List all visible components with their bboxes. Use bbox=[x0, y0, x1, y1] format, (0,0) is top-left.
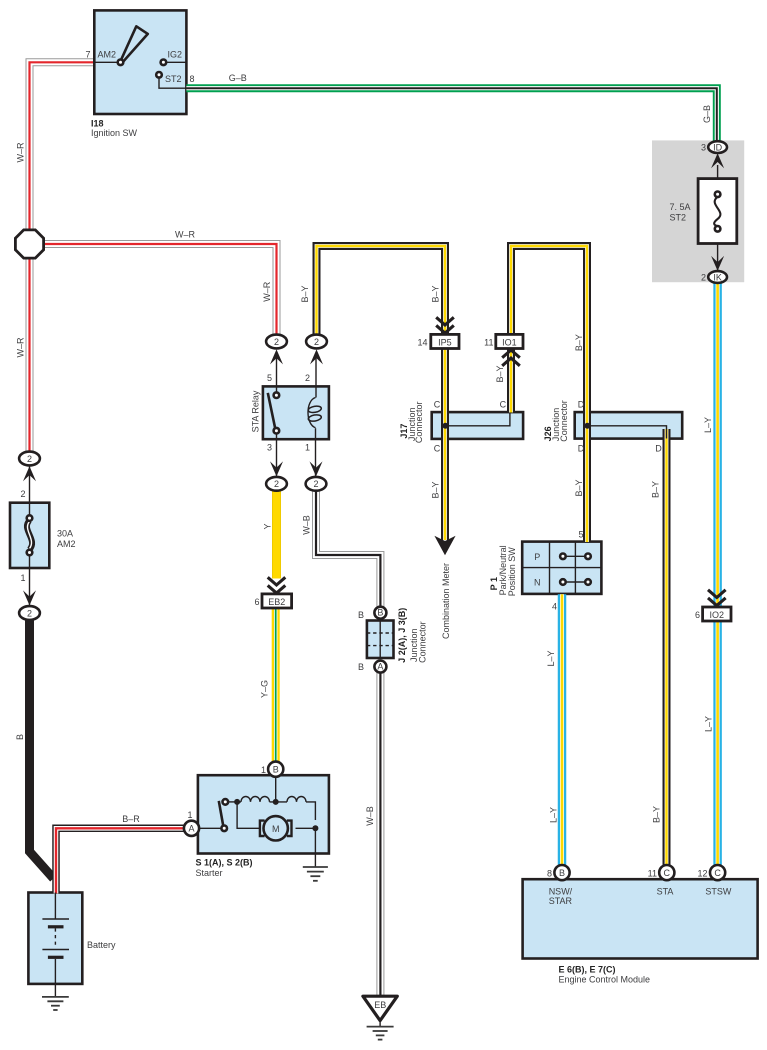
svg-text:B–Y: B–Y bbox=[574, 479, 584, 496]
svg-text:C: C bbox=[664, 868, 671, 878]
svg-text:2: 2 bbox=[274, 337, 279, 347]
svg-text:G–B: G–B bbox=[702, 105, 712, 123]
svg-text:Position SW: Position SW bbox=[507, 547, 517, 597]
svg-text:STA Relay: STA Relay bbox=[250, 390, 260, 432]
svg-text:IG2: IG2 bbox=[168, 50, 183, 60]
svg-text:AM2: AM2 bbox=[98, 50, 117, 60]
svg-text:C: C bbox=[434, 444, 441, 454]
svg-text:L–Y: L–Y bbox=[549, 807, 559, 823]
svg-text:D: D bbox=[655, 444, 662, 454]
svg-text:8: 8 bbox=[190, 74, 195, 84]
svg-text:Engine Control Module: Engine Control Module bbox=[559, 975, 651, 985]
svg-text:4: 4 bbox=[552, 602, 557, 612]
svg-text:2: 2 bbox=[27, 608, 32, 618]
svg-text:1: 1 bbox=[187, 810, 192, 820]
svg-text:ST2: ST2 bbox=[670, 213, 687, 223]
svg-text:AM2: AM2 bbox=[57, 539, 76, 549]
svg-text:D: D bbox=[578, 400, 585, 410]
svg-text:W–R: W–R bbox=[16, 142, 26, 163]
svg-text:B–Y: B–Y bbox=[430, 285, 440, 302]
svg-text:6: 6 bbox=[695, 610, 700, 620]
svg-text:STAR: STAR bbox=[549, 896, 573, 906]
svg-text:3: 3 bbox=[701, 143, 706, 153]
svg-text:EB: EB bbox=[374, 1000, 386, 1010]
svg-text:2: 2 bbox=[701, 273, 706, 283]
svg-text:D: D bbox=[578, 444, 585, 454]
svg-text:2: 2 bbox=[313, 479, 318, 489]
svg-text:2: 2 bbox=[305, 373, 310, 383]
svg-text:Connector: Connector bbox=[414, 402, 424, 444]
svg-text:11: 11 bbox=[648, 869, 657, 879]
svg-text:B–Y: B–Y bbox=[495, 365, 505, 382]
svg-text:5: 5 bbox=[578, 530, 583, 540]
svg-text:30A: 30A bbox=[57, 529, 73, 539]
svg-text:2: 2 bbox=[20, 489, 25, 499]
svg-text:B–Y: B–Y bbox=[574, 334, 584, 351]
svg-text:1: 1 bbox=[20, 573, 25, 583]
svg-text:B–Y: B–Y bbox=[300, 285, 310, 302]
svg-text:B: B bbox=[377, 608, 383, 618]
svg-text:STSW: STSW bbox=[705, 887, 732, 897]
svg-text:7: 7 bbox=[85, 50, 90, 60]
svg-text:IO2: IO2 bbox=[710, 610, 725, 620]
svg-text:ID: ID bbox=[713, 143, 723, 153]
svg-text:6: 6 bbox=[254, 597, 259, 607]
svg-text:12: 12 bbox=[697, 869, 707, 879]
svg-text:Starter: Starter bbox=[196, 868, 223, 878]
svg-text:W–R: W–R bbox=[175, 230, 196, 240]
svg-text:14: 14 bbox=[417, 338, 427, 348]
svg-text:B: B bbox=[559, 868, 565, 878]
svg-text:2: 2 bbox=[27, 454, 32, 464]
svg-text:Y–G: Y–G bbox=[260, 680, 270, 698]
svg-text:B: B bbox=[358, 662, 364, 672]
svg-text:W–B: W–B bbox=[302, 515, 312, 535]
svg-text:IO1: IO1 bbox=[502, 338, 517, 348]
svg-text:G–B: G–B bbox=[229, 73, 247, 83]
svg-text:L–Y: L–Y bbox=[703, 417, 713, 433]
svg-text:W–R: W–R bbox=[16, 337, 26, 358]
svg-text:L–Y: L–Y bbox=[703, 716, 713, 732]
svg-text:7. 5A: 7. 5A bbox=[670, 202, 691, 212]
svg-text:Ignition SW: Ignition SW bbox=[91, 128, 138, 138]
svg-text:L–Y: L–Y bbox=[546, 650, 556, 666]
svg-text:C: C bbox=[434, 400, 441, 410]
svg-text:ST2: ST2 bbox=[165, 74, 182, 84]
svg-text:IK: IK bbox=[713, 272, 722, 282]
svg-text:Combination Meter: Combination Meter bbox=[441, 563, 451, 639]
svg-text:P: P bbox=[534, 552, 540, 562]
svg-text:B–Y: B–Y bbox=[652, 806, 662, 823]
svg-text:E 6(B), E 7(C): E 6(B), E 7(C) bbox=[559, 965, 616, 975]
svg-text:2: 2 bbox=[274, 479, 279, 489]
svg-text:W–R: W–R bbox=[262, 281, 272, 302]
svg-text:M: M bbox=[272, 824, 280, 834]
svg-text:A: A bbox=[377, 662, 383, 672]
svg-text:Battery: Battery bbox=[87, 940, 116, 950]
svg-text:8: 8 bbox=[547, 869, 552, 879]
svg-text:B: B bbox=[358, 610, 364, 620]
svg-text:Connector: Connector bbox=[559, 400, 569, 442]
svg-text:IP5: IP5 bbox=[438, 338, 452, 348]
svg-text:B–Y: B–Y bbox=[651, 481, 661, 498]
svg-text:C: C bbox=[500, 400, 507, 410]
svg-text:J 2(A), J 3(B): J 2(A), J 3(B) bbox=[397, 608, 407, 663]
svg-text:B–R: B–R bbox=[122, 814, 140, 824]
svg-text:EB2: EB2 bbox=[268, 597, 285, 607]
svg-text:W–B: W–B bbox=[365, 806, 375, 826]
svg-text:1: 1 bbox=[261, 765, 266, 775]
svg-text:NSW/: NSW/ bbox=[549, 887, 573, 897]
svg-text:STA: STA bbox=[657, 887, 674, 897]
svg-text:1: 1 bbox=[305, 443, 310, 453]
svg-text:Connector: Connector bbox=[418, 621, 428, 663]
svg-text:B: B bbox=[273, 764, 279, 774]
svg-text:B–Y: B–Y bbox=[431, 481, 441, 498]
svg-text:3: 3 bbox=[267, 443, 272, 453]
svg-text:S 1(A), S 2(B): S 1(A), S 2(B) bbox=[196, 858, 253, 868]
svg-text:A: A bbox=[188, 824, 194, 834]
svg-text:5: 5 bbox=[267, 373, 272, 383]
svg-text:2: 2 bbox=[314, 337, 319, 347]
svg-text:Y: Y bbox=[262, 523, 272, 529]
svg-text:11: 11 bbox=[484, 338, 493, 348]
svg-text:N: N bbox=[534, 578, 541, 588]
svg-text:C: C bbox=[714, 868, 721, 878]
svg-text:B: B bbox=[15, 734, 25, 740]
